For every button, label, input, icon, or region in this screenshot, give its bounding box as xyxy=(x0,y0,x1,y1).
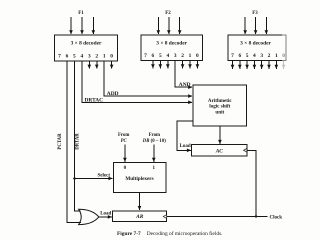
wire PCTAR (U1 pin 6 down to OR gate lower input) xyxy=(67,61,81,222)
wire U2 unused output arrows (pins 6,5,4,2,1,0) xyxy=(153,61,198,69)
svg-text:1: 1 xyxy=(153,166,156,171)
junction select tap on DRTAR line xyxy=(73,177,75,179)
svg-text:3 × 8 decoder: 3 × 8 decoder xyxy=(240,41,271,47)
svg-text:Select: Select xyxy=(98,173,111,178)
svg-text:3 × 8 decoder: 3 × 8 decoder xyxy=(71,41,102,47)
svg-text:AND: AND xyxy=(179,82,191,88)
wire AC clock wire to clock rail xyxy=(247,150,256,216)
svg-text:From: From xyxy=(118,133,129,138)
svg-text:unit: unit xyxy=(215,109,224,115)
wire DRTAR (U1 pin 5 down to OR gate upper input) xyxy=(74,61,80,211)
wire clock rail xyxy=(167,216,268,218)
wire ALU load branch to AC load input xyxy=(177,121,193,151)
svg-text:DR (0 – 10): DR (0 – 10) xyxy=(142,139,166,144)
pin AR clock input (open arrowhead) xyxy=(163,215,166,219)
wire AND (U2 pin 3 to ALU input) xyxy=(175,61,192,88)
wire DR input into multiplexers xyxy=(153,145,155,162)
decoder U1 (F1 3x8 decoder) xyxy=(55,35,118,61)
register AR xyxy=(113,211,167,222)
svg-text:3 × 8 decoder: 3 × 8 decoder xyxy=(156,41,187,47)
wire ALU output down into AC xyxy=(219,126,221,144)
svg-text:PCTAR: PCTAR xyxy=(58,133,63,150)
wire F2 input lines into decoder U2 xyxy=(158,17,179,34)
svg-text:76543210: 76543210 xyxy=(231,53,285,59)
svg-text:76543210: 76543210 xyxy=(58,54,113,60)
svg-text:F1: F1 xyxy=(78,11,84,16)
wire multiplexers output down into AR xyxy=(139,193,141,211)
decoder U3 (F3 3x8 decoder) xyxy=(228,35,286,61)
svg-text:Clock: Clock xyxy=(270,215,283,220)
scan fade over right edge of decoder U3 xyxy=(282,30,292,72)
wire F3 input lines into decoder U3 xyxy=(245,17,266,34)
svg-text:F2: F2 xyxy=(165,11,171,16)
pin AC clock input (open arrowhead) xyxy=(244,148,247,152)
wire U1 unused output arrows (pins 3,2,0) xyxy=(89,61,111,69)
svg-text:76543210: 76543210 xyxy=(144,53,199,59)
svg-text:AC: AC xyxy=(215,148,224,154)
wire U3 unused output arrows (pins 7..0) xyxy=(233,61,284,69)
svg-text:PC: PC xyxy=(121,139,128,144)
register AC xyxy=(192,145,247,156)
svg-text:Multiplexers: Multiplexers xyxy=(125,176,153,182)
svg-text:Figure 7-7Decoding of microope: Figure 7-7Decoding of microoperation fie… xyxy=(117,230,222,237)
wire PC input into multiplexers xyxy=(124,145,126,162)
wire DRTAC (U1 pin 4 to ALU input) xyxy=(82,61,192,102)
decoder U2 (F2 3x8 decoder) xyxy=(141,35,203,61)
svg-text:From: From xyxy=(149,133,160,138)
wire select line into multiplexers xyxy=(74,177,112,179)
wire OR gate output to AR load input xyxy=(99,216,112,218)
svg-text:0: 0 xyxy=(124,166,127,171)
svg-text:DRTAC: DRTAC xyxy=(85,97,104,103)
svg-text:Load: Load xyxy=(180,144,191,149)
svg-text:ADD: ADD xyxy=(107,91,119,97)
svg-text:F3: F3 xyxy=(252,11,258,16)
wire ADD (U1 pin 1 to ALU input) xyxy=(104,61,192,96)
wire F1 input lines into decoder U1 xyxy=(71,17,93,34)
svg-text:AR: AR xyxy=(135,214,144,220)
or-gate G1 (PCTAR + DRTAR -> load AR) xyxy=(79,209,99,224)
svg-text:Load: Load xyxy=(100,211,111,216)
mux U5 multiplexers box xyxy=(113,163,166,193)
junction clock rail to AC branch xyxy=(255,215,257,217)
svg-text:DRTAR: DRTAR xyxy=(76,133,81,150)
op-amp U4: arithmetic logic shift unit box xyxy=(193,85,247,126)
